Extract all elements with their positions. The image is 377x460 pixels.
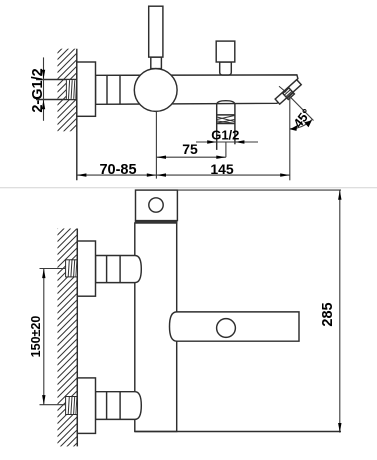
- svg-text:75: 75: [182, 141, 198, 157]
- svg-text:285: 285: [320, 302, 336, 326]
- svg-text:G1/2: G1/2: [211, 128, 239, 143]
- svg-text:70-85: 70-85: [99, 162, 136, 178]
- svg-text:150±20: 150±20: [29, 316, 43, 358]
- svg-text:145: 145: [210, 161, 234, 177]
- svg-text:2-G1/2: 2-G1/2: [30, 68, 46, 112]
